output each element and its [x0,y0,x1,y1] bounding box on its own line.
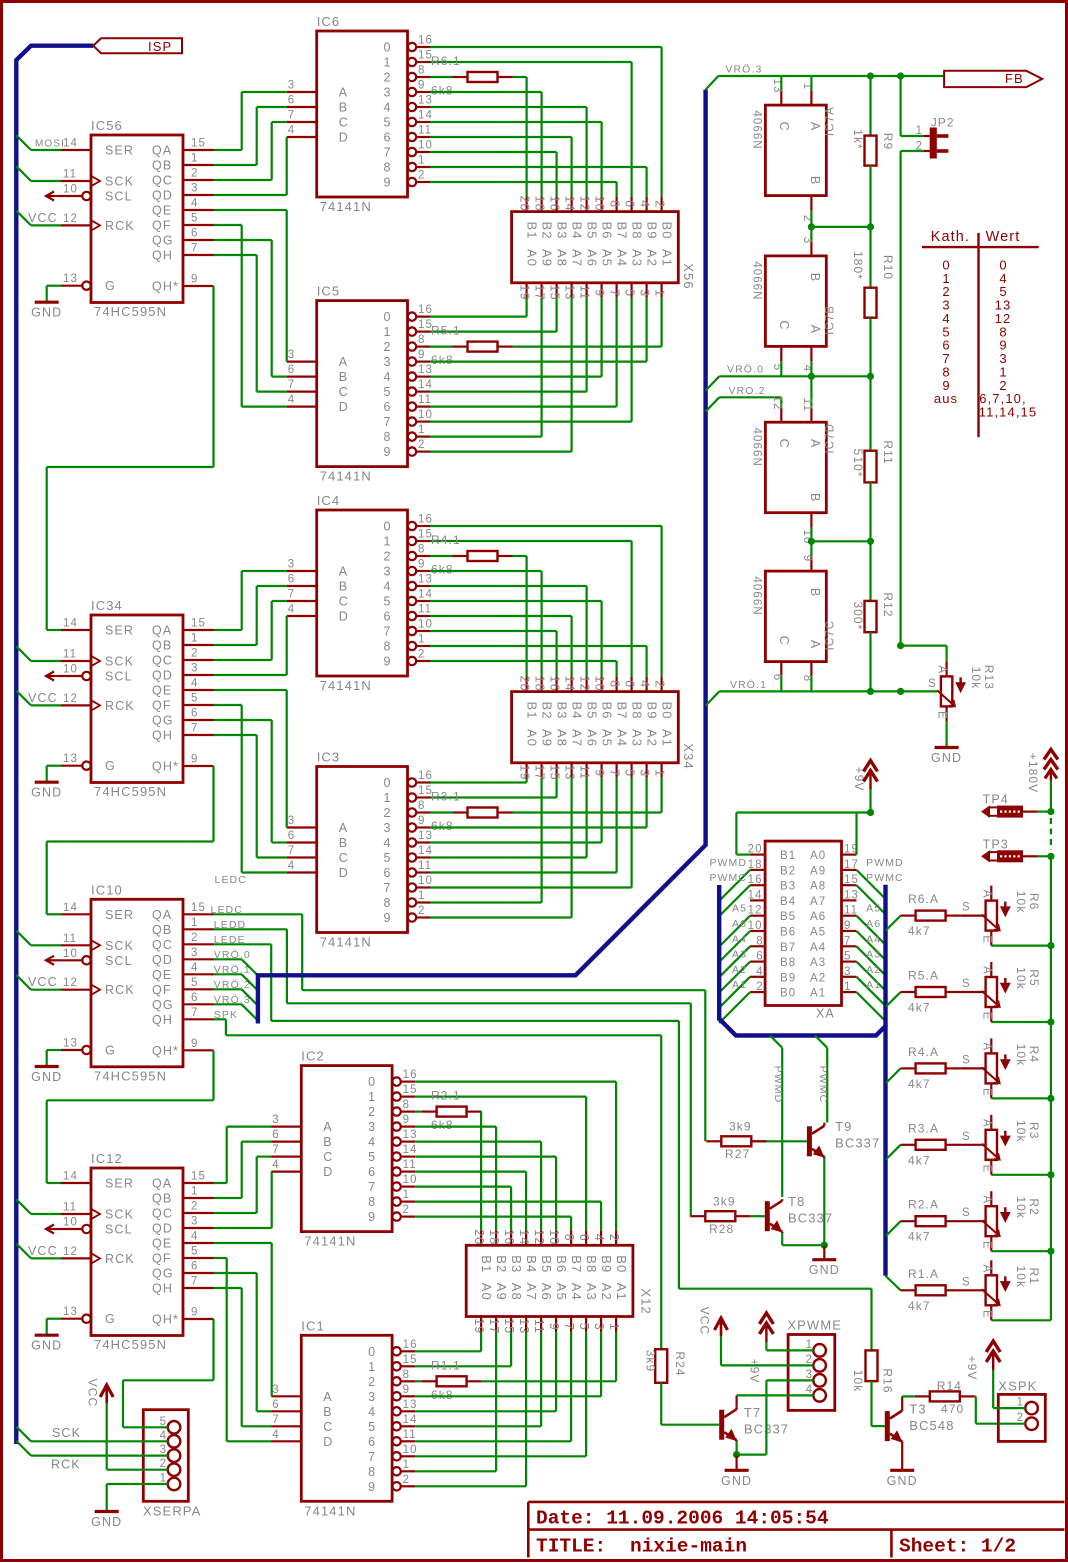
svg-text:7: 7 [288,845,294,857]
svg-text:10: 10 [63,664,78,676]
svg-text:2: 2 [191,648,197,660]
svg-text:0: 0 [384,776,391,790]
svg-text:1: 1 [1017,1397,1023,1409]
svg-text:1: 1 [368,1360,375,1374]
svg-text:SER: SER [105,1177,134,1191]
svg-text:3: 3 [592,1323,606,1330]
svg-text:9: 9 [384,655,391,669]
svg-text:6: 6 [384,610,391,624]
svg-text:R6: R6 [1027,893,1041,911]
svg-text:A2: A2 [645,729,660,747]
svg-text:7: 7 [191,1276,197,1288]
svg-text:BC337: BC337 [788,1211,833,1226]
svg-text:15: 15 [191,618,206,630]
svg-text:B: B [339,101,347,115]
svg-text:B1: B1 [525,702,540,720]
svg-text:R5: R5 [1027,969,1041,987]
svg-text:QB: QB [152,159,172,173]
svg-text:R5.1: R5.1 [431,324,461,338]
svg-text:10: 10 [418,409,433,421]
svg-text:E: E [980,1310,992,1318]
svg-text:3k9: 3k9 [713,1195,736,1209]
svg-text:SCL: SCL [105,1223,133,1237]
svg-text:B3: B3 [555,702,570,720]
svg-text:7: 7 [608,769,622,776]
svg-text:3: 3 [384,355,391,369]
svg-text:14: 14 [63,902,78,914]
svg-text:4: 4 [191,1231,198,1243]
svg-text:16: 16 [502,1229,516,1245]
svg-text:4k7: 4k7 [908,1001,931,1015]
svg-text:T7: T7 [744,1405,761,1420]
svg-text:4: 4 [756,966,763,978]
svg-text:QG: QG [152,998,174,1012]
svg-text:3: 3 [288,80,294,92]
svg-text:+9V: +9V [748,1359,762,1384]
svg-text:2: 2 [384,550,391,564]
svg-text:QB: QB [152,923,172,937]
svg-text:74HC595N: 74HC595N [94,304,167,319]
svg-text:C: C [339,385,348,399]
svg-text:5: 5 [160,1416,166,1428]
svg-text:S: S [962,902,970,914]
svg-text:QA: QA [152,1177,172,1191]
svg-text:VCC: VCC [28,975,58,989]
svg-text:14: 14 [418,845,433,857]
svg-text:TP4: TP4 [983,793,1009,807]
svg-text:6k8: 6k8 [431,1388,454,1402]
svg-text:SCK: SCK [105,175,134,189]
svg-text:T8: T8 [788,1194,805,1209]
svg-text:7: 7 [844,935,850,947]
svg-text:A9: A9 [540,729,555,747]
svg-text:2: 2 [806,1354,812,1366]
svg-text:B8: B8 [630,222,645,240]
svg-text:IC12: IC12 [91,1151,123,1166]
svg-text:4: 4 [384,370,391,384]
svg-text:2: 2 [653,680,667,687]
svg-text:1: 1 [384,56,391,70]
svg-text:B0: B0 [614,1255,629,1273]
svg-text:B6: B6 [600,702,615,720]
svg-text:IC56: IC56 [91,118,123,133]
svg-text:7: 7 [191,1007,197,1019]
svg-text:4: 4 [288,394,295,406]
svg-text:G: G [105,279,115,293]
svg-text:17: 17 [533,765,547,781]
svg-text:D: D [323,1435,332,1449]
svg-text:A4: A4 [569,1283,584,1301]
svg-text:R12: R12 [881,592,895,617]
svg-text:1: 1 [160,1473,166,1485]
svg-text:4066N: 4066N [751,576,763,615]
svg-text:+9V: +9V [852,767,866,792]
svg-text:E: E [980,1241,992,1249]
svg-text:BC548: BC548 [909,1418,954,1433]
svg-text:B7: B7 [615,702,630,720]
svg-text:B8: B8 [584,1255,599,1273]
svg-text:3: 3 [384,821,391,835]
svg-text:14: 14 [63,618,78,630]
svg-text:10: 10 [63,184,78,196]
svg-text:12: 12 [578,676,592,692]
svg-text:20: 20 [518,676,532,692]
svg-text:2: 2 [418,649,424,661]
svg-text:3: 3 [384,86,391,100]
svg-text:A5: A5 [866,903,881,915]
svg-text:1: 1 [384,535,391,549]
svg-text:10: 10 [63,1217,78,1229]
svg-text:8: 8 [368,1465,375,1479]
svg-text:IC34: IC34 [91,598,123,613]
svg-text:C: C [777,122,791,131]
svg-text:2: 2 [384,340,391,354]
svg-text:6: 6 [288,830,294,842]
svg-text:B6: B6 [554,1255,569,1273]
svg-text:A1: A1 [660,249,675,267]
svg-text:5: 5 [191,213,197,225]
svg-text:A: A [808,439,822,448]
svg-text:GND: GND [31,1339,62,1353]
svg-text:20: 20 [472,1229,486,1245]
svg-text:B: B [808,588,822,596]
svg-text:IC7D: IC7D [825,423,837,454]
svg-text:6k8: 6k8 [431,1118,454,1132]
svg-text:A6: A6 [810,911,826,923]
svg-text:IC10: IC10 [91,882,123,897]
svg-text:180*: 180* [851,251,865,280]
svg-text:B8: B8 [780,957,796,969]
svg-text:4066N: 4066N [751,110,763,149]
svg-text:B9: B9 [645,702,660,720]
svg-text:11: 11 [844,905,858,917]
svg-text:5: 5 [384,595,391,609]
svg-text:GND: GND [887,1474,918,1488]
svg-text:10: 10 [593,676,607,692]
svg-text:1: 1 [418,890,424,902]
svg-text:A2: A2 [866,964,881,976]
svg-text:8: 8 [608,200,622,207]
svg-text:RCK: RCK [51,1458,81,1472]
svg-text:3: 3 [844,966,850,978]
svg-text:D: D [339,610,348,624]
svg-text:4: 4 [638,680,652,687]
svg-text:8: 8 [418,65,424,77]
svg-text:13: 13 [63,1306,78,1318]
svg-text:8: 8 [368,1195,375,1209]
svg-text:4: 4 [288,860,295,872]
svg-text:A7: A7 [524,1283,539,1301]
svg-text:A: A [808,122,822,131]
svg-text:1: 1 [418,634,424,646]
svg-text:5: 5 [368,1420,375,1434]
svg-text:7: 7 [368,1180,375,1194]
svg-text:4: 4 [592,1234,606,1241]
svg-text:16: 16 [748,874,763,886]
svg-text:16: 16 [418,514,433,526]
svg-text:B0: B0 [660,222,675,240]
svg-text:3: 3 [638,769,652,776]
svg-text:RCK: RCK [105,699,135,713]
svg-text:VRÖ.3: VRÖ.3 [725,64,762,76]
svg-text:11: 11 [63,1202,77,1214]
svg-text:QA: QA [152,908,172,922]
svg-text:4: 4 [288,125,295,137]
svg-text:3: 3 [368,1120,375,1134]
svg-text:A4: A4 [810,942,826,954]
svg-text:10k: 10k [851,1370,865,1393]
svg-text:2: 2 [1017,1412,1023,1424]
svg-text:R11: R11 [881,440,895,464]
svg-text:15: 15 [502,1318,516,1334]
svg-text:1: 1 [191,917,197,929]
svg-text:11: 11 [63,649,77,661]
svg-text:B2: B2 [540,222,555,240]
svg-text:1: 1 [418,155,424,167]
svg-text:IC3: IC3 [317,750,341,765]
svg-text:QF: QF [152,699,172,713]
svg-text:13: 13 [63,1038,78,1050]
svg-text:2: 2 [653,200,667,207]
svg-text:2: 2 [418,905,424,917]
svg-text:A0: A0 [479,1283,494,1301]
svg-text:A1: A1 [732,979,747,991]
svg-text:6: 6 [288,95,294,107]
svg-text:10k: 10k [969,667,983,690]
svg-text:R24: R24 [673,1351,687,1376]
svg-text:QF: QF [152,983,172,997]
svg-text:1: 1 [368,1090,375,1104]
svg-text:2: 2 [418,170,424,182]
svg-text:13: 13 [63,273,78,285]
svg-text:3: 3 [806,1369,812,1381]
svg-text:S: S [928,678,936,690]
svg-text:4: 4 [191,962,198,974]
svg-text:12: 12 [63,213,78,225]
svg-text:10k: 10k [1014,967,1028,990]
svg-text:A8: A8 [555,249,570,267]
svg-text:11: 11 [578,285,592,300]
svg-text:7: 7 [384,146,391,160]
svg-text:QD: QD [152,189,173,203]
svg-text:B: B [339,836,347,850]
svg-text:XSERPA: XSERPA [143,1504,201,1519]
svg-text:10k: 10k [1014,891,1028,914]
svg-text:5: 5 [623,769,637,776]
svg-text:1: 1 [844,981,850,993]
svg-text:D: D [339,400,348,414]
svg-text:9: 9 [844,920,850,932]
svg-text:A7: A7 [810,896,826,908]
svg-text:0: 0 [384,41,391,55]
svg-text:S: S [962,1276,970,1288]
svg-text:11: 11 [403,1429,417,1441]
svg-text:8: 8 [562,1234,576,1241]
svg-text:T9: T9 [835,1119,852,1134]
svg-text:4k7: 4k7 [908,1077,931,1091]
svg-text:14: 14 [418,379,433,391]
svg-text:SCK: SCK [52,1426,81,1440]
svg-text:B6: B6 [600,222,615,240]
svg-text:10: 10 [547,1229,561,1245]
svg-text:IC7B: IC7B [825,305,837,335]
svg-text:18: 18 [487,1229,501,1245]
svg-text:C: C [339,595,348,609]
svg-text:4: 4 [384,101,391,115]
svg-text:Date: 11.09.2006 14:05:54: Date: 11.09.2006 14:05:54 [536,1508,829,1530]
svg-text:9: 9 [418,815,424,827]
svg-text:SCK: SCK [105,1208,134,1222]
svg-text:11: 11 [418,604,432,616]
svg-text:13: 13 [403,1129,418,1141]
svg-text:A1: A1 [866,979,881,991]
svg-text:9: 9 [384,176,391,190]
svg-text:11: 11 [532,1319,546,1334]
svg-text:13: 13 [63,753,78,765]
svg-text:TITLE:: TITLE: [536,1536,606,1558]
svg-text:A6: A6 [585,249,600,267]
svg-text:Sheet: 1/2: Sheet: 1/2 [899,1536,1016,1558]
svg-text:A8: A8 [555,729,570,747]
svg-text:PWMC: PWMC [866,872,904,884]
svg-text:A: A [980,1195,992,1203]
svg-text:14: 14 [563,676,577,692]
svg-text:20: 20 [518,196,532,212]
svg-text:PWMD: PWMD [709,857,747,869]
svg-text:12: 12 [578,196,592,212]
svg-text:A0: A0 [525,729,540,747]
svg-text:11: 11 [63,169,77,181]
svg-text:SCL: SCL [105,670,133,684]
svg-text:A: A [339,821,348,835]
svg-text:+180V: +180V [1026,753,1040,794]
svg-text:2: 2 [368,1105,375,1119]
svg-text:1: 1 [806,1339,812,1351]
svg-text:R28: R28 [709,1222,734,1236]
svg-text:QG: QG [152,714,174,728]
svg-text:1: 1 [916,125,922,137]
svg-text:4k7: 4k7 [908,1230,931,1244]
svg-text:A3: A3 [630,729,645,747]
svg-text:B9: B9 [599,1255,614,1273]
svg-text:GND: GND [31,1070,62,1084]
svg-text:11: 11 [418,125,432,137]
svg-text:R3.1: R3.1 [431,790,461,804]
svg-text:A: A [980,1043,992,1051]
svg-text:8: 8 [384,896,391,910]
svg-text:GND: GND [31,306,62,320]
svg-text:1: 1 [191,633,197,645]
svg-text:6: 6 [272,1399,278,1411]
svg-text:6: 6 [623,200,637,207]
svg-text:9: 9 [191,1038,197,1050]
svg-text:A: A [980,1264,992,1272]
svg-text:15: 15 [844,874,859,886]
svg-text:B7: B7 [569,1255,584,1273]
svg-text:VRÖ.1: VRÖ.1 [730,679,767,691]
svg-text:8: 8 [384,161,391,175]
svg-text:R2.A: R2.A [908,1198,939,1212]
svg-text:R2: R2 [1027,1198,1041,1216]
svg-text:FB: FB [1005,71,1024,86]
svg-text:R4: R4 [1027,1046,1041,1064]
svg-text:R1.A: R1.A [908,1267,939,1281]
svg-text:5: 5 [191,1246,197,1258]
svg-text:8: 8 [403,1099,409,1111]
svg-text:B: B [339,580,347,594]
svg-text:9: 9 [368,1480,375,1494]
svg-text:A2: A2 [810,972,826,984]
svg-text:15: 15 [403,1084,418,1096]
svg-text:12: 12 [748,905,763,917]
svg-text:9: 9 [368,1210,375,1224]
svg-text:12: 12 [63,693,78,705]
svg-text:ISP: ISP [148,39,172,54]
svg-text:3: 3 [272,1114,278,1126]
svg-text:9: 9 [418,349,424,361]
svg-text:A6: A6 [539,1283,554,1301]
svg-text:A0: A0 [810,850,826,862]
svg-text:10: 10 [63,948,78,960]
svg-text:7: 7 [272,1414,278,1426]
svg-text:BC337: BC337 [835,1136,880,1151]
svg-text:B: B [323,1135,331,1149]
svg-text:7: 7 [562,1323,576,1330]
svg-text:1: 1 [384,325,391,339]
svg-text:R2.1: R2.1 [431,1089,461,1103]
svg-text:B4: B4 [570,702,585,720]
svg-text:QA: QA [152,624,172,638]
svg-text:4: 4 [384,836,391,850]
svg-text:B: B [808,176,822,184]
svg-text:B: B [808,493,822,501]
svg-text:12: 12 [63,1246,78,1258]
svg-text:B7: B7 [780,942,796,954]
svg-text:7: 7 [288,110,294,122]
svg-text:Wert: Wert [986,229,1021,245]
svg-text:4: 4 [368,1405,375,1419]
svg-text:C: C [339,851,348,865]
svg-text:16: 16 [418,304,433,316]
svg-text:14: 14 [63,138,78,150]
svg-text:7: 7 [288,379,294,391]
svg-text:B4: B4 [570,222,585,240]
svg-text:B: B [808,273,822,281]
svg-text:4: 4 [191,198,198,210]
svg-text:VCC: VCC [86,1379,100,1408]
svg-text:X34: X34 [681,743,696,769]
svg-text:13: 13 [403,1399,418,1411]
svg-text:2: 2 [403,1474,409,1486]
svg-text:4: 4 [384,580,391,594]
svg-text:A: A [980,890,992,898]
svg-text:SER: SER [105,144,134,158]
svg-text:B3: B3 [509,1255,524,1273]
svg-text:QG: QG [152,1267,174,1281]
svg-text:5: 5 [844,951,850,963]
svg-text:18: 18 [533,676,547,692]
svg-text:GND: GND [91,1515,122,1529]
svg-text:4: 4 [368,1135,375,1149]
svg-text:B5: B5 [585,222,600,240]
svg-text:10k: 10k [1014,1196,1028,1219]
svg-text:A6: A6 [866,918,881,930]
svg-text:3: 3 [368,1390,375,1404]
svg-text:6k8: 6k8 [431,819,454,833]
svg-text:A: A [323,1120,332,1134]
svg-text:8: 8 [418,544,424,556]
svg-text:B2: B2 [540,702,555,720]
